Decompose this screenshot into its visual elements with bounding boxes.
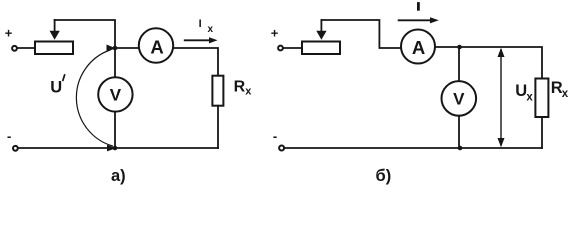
wire ammeter to Rx (circuit a)	[173, 48, 218, 76]
svg-text:+: +	[271, 26, 279, 41]
wire node to ammeter	[115, 47, 139, 49]
voltmeter V (circuit b)	[442, 81, 477, 116]
current arrow I_x (circuit a)	[185, 39, 210, 41]
node bottom junction (circuit b)	[458, 146, 463, 151]
resistor R_x (circuit b)	[535, 79, 548, 118]
wire ammeter to Rx corner (circuit b top rail)	[435, 47, 542, 79]
svg-text:R: R	[234, 79, 246, 96]
node bottom junction (circuit a)	[113, 146, 118, 151]
svg-text:x: x	[208, 24, 214, 35]
svg-text:V: V	[110, 86, 122, 105]
rheostat body (circuit b)	[302, 42, 340, 55]
wire node to voltmeter (circuit b)	[458, 47, 460, 81]
rheostat body (circuit a)	[35, 42, 73, 55]
terminal - (circuit a)	[13, 146, 18, 151]
bottom rail (circuit a)	[18, 147, 218, 149]
wire voltmeter to bottom rail (circuit b)	[458, 116, 460, 148]
svg-text:x: x	[245, 86, 252, 98]
current arrow I (circuit b)	[399, 19, 431, 21]
wire terminal to rheostat	[17, 47, 35, 49]
wire Rx to bottom rail (circuit a)	[217, 106, 219, 148]
wire wiper to node A (circuit a)	[55, 20, 115, 48]
resistor R_x (circuit a)	[212, 76, 223, 106]
label I (circuit b)	[417, 4, 420, 10]
wire Rx to bottom rail (circuit b)	[541, 117, 543, 148]
svg-text:x: x	[562, 88, 569, 100]
rheostat wiper arrow (circuit b)	[320, 20, 322, 32]
svg-text:-: -	[7, 129, 11, 144]
ammeter A (circuit a)	[139, 28, 173, 62]
node top junction (circuit a)	[113, 46, 118, 51]
measurement arc U' (circuit a)	[76, 50, 112, 146]
svg-text:а): а)	[111, 167, 126, 185]
svg-text:I: I	[199, 18, 202, 30]
wire wiper to ammeter (circuit b)	[321, 20, 401, 48]
svg-text:+: +	[5, 26, 13, 41]
voltmeter V (circuit a)	[98, 77, 132, 111]
svg-text:x: x	[526, 92, 533, 104]
dimension arrow U_x (circuit b)	[500, 50, 502, 145]
terminal - (circuit b)	[279, 146, 284, 151]
svg-text:U: U	[50, 79, 62, 97]
terminal + (circuit a)	[12, 46, 17, 51]
svg-text:V: V	[453, 90, 465, 109]
svg-text:-: -	[273, 129, 277, 144]
svg-text:A: A	[150, 37, 163, 58]
svg-text:A: A	[412, 37, 425, 58]
wire node to voltmeter (circuit a)	[114, 48, 116, 77]
svg-text:б): б)	[376, 167, 392, 185]
wire terminal to rheostat (circuit b)	[283, 47, 302, 49]
rheostat wiper arrow (circuit a)	[54, 20, 56, 32]
node top junction (circuit b)	[457, 45, 462, 50]
ammeter A (circuit b)	[401, 30, 435, 64]
wire voltmeter to bottom rail (circuit a)	[114, 112, 116, 148]
terminal + (circuit b)	[278, 46, 283, 51]
bottom rail (circuit b)	[284, 147, 542, 149]
